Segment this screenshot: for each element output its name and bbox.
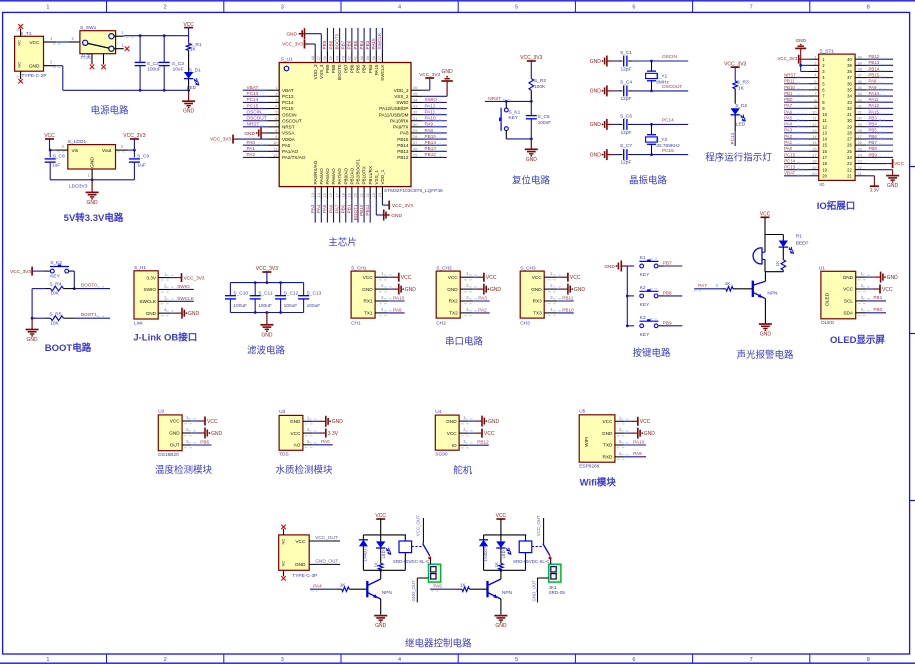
svg-text:GND: GND (405, 287, 417, 293)
svg-text:24: 24 (377, 192, 382, 197)
svg-text:S_H1: S_H1 (134, 265, 146, 271)
svg-text:VCC: VCC (170, 419, 181, 424)
svg-text:GND: GND (531, 287, 542, 292)
svg-text:VCC: VCC (532, 275, 543, 280)
svg-text:SRD-05VDC-SL-C: SRD-05VDC-SL-C (393, 559, 429, 564)
ground GND of filter circuit (260, 313, 273, 339)
svg-text:16: 16 (328, 192, 333, 197)
title 滤波电路 (247, 345, 286, 357)
svg-text:RX2: RX2 (449, 299, 459, 304)
net label PB8 wire (650, 289, 682, 296)
svg-text:PA2: PA2 (247, 152, 256, 157)
svg-text:100uF: 100uF (233, 303, 247, 309)
svg-text:40: 40 (847, 57, 852, 62)
chip top pins with names and numbers (310, 52, 385, 81)
svg-text:27: 27 (858, 134, 862, 139)
svg-text:PB15: PB15 (397, 137, 409, 142)
svg-text:PB3: PB3 (365, 40, 370, 49)
svg-text:11: 11 (822, 118, 827, 123)
connector S_CH2 body (436, 265, 477, 326)
svg-text:Vout: Vout (102, 148, 112, 154)
svg-text:VCC_3V3: VCC_3V3 (210, 137, 231, 142)
svg-text:VCC_3V3: VCC_3V3 (123, 133, 145, 139)
svg-text:PB1: PB1 (784, 91, 793, 96)
svg-text:18: 18 (822, 161, 827, 166)
svg-text:IO: IO (819, 182, 824, 188)
svg-text:PA9: PA9 (633, 451, 642, 456)
svg-text:0: 0 (17, 75, 19, 79)
crystal S_Y1 8MHz with capacitors S_C1 S_C4 (OSCIN/OSCOUT) (590, 50, 688, 102)
svg-text:GND: GND (590, 152, 602, 158)
svg-text:NPN: NPN (382, 590, 393, 596)
svg-text:35: 35 (847, 87, 852, 92)
svg-text:CH3: CH3 (520, 321, 530, 327)
screw terminal connector (green) (429, 559, 441, 583)
svg-text:R1: R1 (796, 234, 802, 240)
svg-text:29: 29 (413, 128, 418, 133)
svg-text:VCC: VCC (448, 275, 459, 280)
svg-text:SWCLK: SWCLK (177, 296, 195, 301)
svg-text:7: 7 (750, 5, 753, 11)
power VCC_3V3 of BOOT circuit (10, 267, 43, 276)
svg-text:1K: 1K (460, 582, 467, 587)
svg-text:2: 2 (164, 5, 167, 11)
power VCC_3V3 of reset circuit (520, 55, 542, 78)
title Wifi模块 (580, 476, 617, 488)
svg-text:RX1: RX1 (363, 299, 373, 304)
power VCC at U4 pin 2 (468, 429, 495, 438)
svg-text:声光报警电路: 声光报警电路 (736, 349, 794, 361)
svg-text:PB7: PB7 (343, 64, 348, 73)
svg-text:GND: GND (332, 419, 344, 425)
connector S_CH1 body (351, 265, 392, 326)
svg-text:47: 47 (316, 55, 321, 60)
svg-text:PA5: PA5 (322, 204, 327, 213)
svg-text:21: 21 (858, 171, 862, 176)
net label PA9 at U5 pin 4 (624, 451, 646, 457)
svg-text:S_C12: S_C12 (284, 291, 299, 297)
svg-text:GND: GND (887, 275, 899, 281)
IO header right pins (855, 54, 866, 176)
chip left net label wires (243, 85, 267, 157)
connector S_T1 (TYPE-C-2P) (15, 29, 47, 80)
svg-text:VCC: VCC (401, 275, 412, 281)
svg-text:KEY: KEY (640, 332, 650, 338)
IO header left net labels (784, 73, 808, 176)
chip bottom rotated net labels (310, 200, 370, 223)
svg-text:PB2/BOOT1: PB2/BOOT1 (356, 159, 361, 185)
svg-text:22: 22 (858, 165, 862, 170)
svg-text:S_C1: S_C1 (620, 50, 632, 56)
svg-text:1K: 1K (374, 562, 379, 567)
svg-text:10K: 10K (50, 320, 59, 326)
svg-text:19: 19 (812, 165, 816, 170)
svg-text:晶振电路: 晶振电路 (629, 175, 668, 187)
svg-text:VSSA: VSSA (282, 131, 295, 136)
net label PB6 at U2 pin 3 (191, 439, 211, 445)
title 主芯片 (328, 237, 357, 249)
svg-text:PB14: PB14 (397, 143, 409, 148)
svg-text:OUT: OUT (170, 443, 180, 448)
power VCC_3V3 of indicator (724, 61, 746, 81)
svg-text:VCC: VCC (496, 513, 507, 519)
svg-text:PA6: PA6 (328, 204, 333, 213)
svg-text:VCC: VCC (29, 40, 40, 46)
svg-text:35: 35 (413, 91, 418, 96)
svg-text:32: 32 (413, 110, 418, 115)
ground GND of BOOT circuit (26, 318, 39, 343)
net label NRST wire (485, 96, 533, 103)
svg-text:GND: GND (362, 287, 373, 292)
svg-text:21: 21 (359, 192, 364, 197)
title IO拓展口 (817, 200, 856, 212)
ground GND at chip VSS_2 pin 35 (423, 69, 453, 96)
svg-text:1K: 1K (725, 281, 732, 286)
power 3.3V at U3 pin 2 (312, 429, 339, 438)
svg-text:30: 30 (413, 122, 418, 127)
svg-text:39: 39 (847, 63, 852, 68)
svg-text:22: 22 (847, 167, 852, 172)
svg-text:SWIO: SWIO (396, 100, 409, 105)
svg-text:OLED显示屏: OLED显示屏 (830, 335, 885, 346)
chip right pins with names and numbers (379, 85, 423, 160)
svg-text:VBAT: VBAT (784, 171, 795, 176)
svg-text:PB9: PB9 (663, 320, 672, 325)
svg-text:NC: NC (16, 40, 21, 46)
svg-text:VCC_OUT: VCC_OUT (416, 515, 421, 536)
svg-text:12pF: 12pF (621, 67, 632, 73)
svg-text:3: 3 (281, 5, 284, 11)
svg-text:VSS_3: VSS_3 (319, 64, 324, 79)
title OLED显示屏 (830, 335, 885, 346)
svg-text:PB7: PB7 (869, 140, 878, 145)
svg-text:U3: U3 (279, 409, 285, 415)
svg-text:KEY: KEY (640, 272, 650, 278)
power VCC at S_CH3 pin 1 (557, 273, 581, 282)
svg-text:31: 31 (858, 110, 862, 115)
svg-text:20: 20 (822, 173, 827, 178)
svg-text:16: 16 (822, 149, 827, 154)
svg-text:PB3: PB3 (869, 115, 878, 120)
power VCC of relay driver (375, 513, 386, 535)
svg-text:VDD_3: VDD_3 (313, 64, 318, 79)
svg-text:PA1: PA1 (247, 146, 256, 151)
svg-text:1K: 1K (738, 85, 745, 91)
chip top rotated net labels (322, 28, 382, 52)
alarm bottom rail wire (765, 271, 783, 273)
wire button to BOOT0 junction (73, 271, 76, 290)
filter top rail wire (230, 281, 303, 284)
svg-text:41: 41 (353, 55, 358, 60)
svg-text:S_K1: S_K1 (509, 109, 521, 115)
ground GND at U5 pin 2 (624, 428, 655, 439)
svg-text:15: 15 (322, 192, 327, 197)
svg-text:PA10: PA10 (393, 296, 405, 301)
svg-text:PA7: PA7 (784, 103, 793, 108)
net label PA10 at S_CH1 RX (388, 296, 405, 302)
title BOOT电路 (45, 342, 92, 354)
svg-text:PB6: PB6 (200, 439, 209, 444)
svg-text:S_C13: S_C13 (307, 291, 322, 297)
svg-text:J-Link OB接口: J-Link OB接口 (133, 332, 197, 344)
svg-text:PC15: PC15 (784, 152, 796, 157)
svg-text:PB10/TX: PB10/TX (362, 166, 367, 184)
svg-text:Wifi模块: Wifi模块 (580, 476, 617, 488)
transistor NPN of relay driver (367, 570, 392, 614)
svg-text:45: 45 (328, 55, 333, 60)
svg-text:100uF: 100uF (307, 303, 321, 309)
resistor S_R3 1K (733, 80, 749, 104)
net label PA10 at U5 pin 3 (624, 439, 646, 445)
svg-text:PB10: PB10 (359, 204, 364, 216)
svg-text:NRST: NRST (784, 73, 796, 78)
LED D1 of alarm (779, 234, 809, 254)
svg-text:PB1/AO: PB1/AO (349, 167, 354, 184)
svg-text:PA15: PA15 (869, 109, 880, 114)
svg-text:VCC: VCC (363, 275, 374, 280)
svg-text:39: 39 (858, 60, 862, 65)
chip left pins with names and numbers (267, 85, 306, 160)
svg-text:PA3: PA3 (784, 128, 793, 133)
power 3.3V at IO pin 21 (866, 176, 880, 192)
svg-text:OSCOUT: OSCOUT (282, 118, 302, 123)
svg-text:S_CH3: S_CH3 (520, 265, 536, 271)
svg-text:VCC: VCC (882, 287, 893, 293)
svg-text:SRD-05VDC-SL-C: SRD-05VDC-SL-C (513, 559, 549, 564)
svg-text:PA1/AO: PA1/AO (282, 149, 299, 154)
title 复位电路 (512, 175, 551, 187)
svg-text:5: 5 (515, 5, 518, 11)
svg-text:PB0: PB0 (873, 307, 882, 312)
net label PB10 at S_CH3 TX (557, 307, 574, 313)
power VCC at S_CH2 pin 1 (473, 273, 497, 282)
svg-text:VSS_2: VSS_2 (394, 94, 409, 99)
wire reset bottom junction (506, 138, 532, 141)
svg-text:串口电路: 串口电路 (445, 336, 484, 348)
svg-text:BOOT0: BOOT0 (337, 64, 342, 80)
svg-text:AO: AO (294, 443, 301, 448)
svg-text:PA3: PA3 (478, 296, 487, 301)
svg-text:7: 7 (814, 91, 816, 96)
net label PA2 at S_CH2 TX (473, 307, 490, 313)
svg-text:继电器控制电路: 继电器控制电路 (405, 638, 472, 650)
svg-text:VCC: VCC (760, 212, 771, 218)
svg-text:34: 34 (847, 94, 852, 99)
ground GND at chip VSSA pin 8 (244, 127, 267, 138)
svg-text:VCC_3V3: VCC_3V3 (520, 55, 542, 61)
chip right net label wires (423, 97, 447, 157)
svg-text:PC13: PC13 (730, 132, 735, 144)
net label VCC_OUT wire (309, 535, 340, 541)
svg-text:NRST: NRST (282, 125, 295, 130)
svg-text:PB12: PB12 (397, 155, 409, 160)
svg-text:25: 25 (847, 149, 852, 154)
svg-text:PC13: PC13 (784, 165, 796, 170)
svg-text:PB3: PB3 (368, 64, 373, 73)
svg-text:PA9: PA9 (393, 307, 402, 312)
svg-text:S_C10: S_C10 (233, 291, 248, 297)
svg-text:PB6: PB6 (869, 134, 878, 139)
svg-text:PB12: PB12 (477, 440, 489, 445)
svg-text:PA0: PA0 (784, 146, 793, 151)
svg-text:GND: GND (526, 157, 538, 163)
push button S_K1 KEY (499, 100, 520, 139)
svg-text:31: 31 (413, 116, 418, 121)
svg-text:SCL: SCL (844, 299, 854, 304)
svg-text:WIFI: WIFI (584, 437, 590, 447)
svg-text:LED: LED (736, 121, 746, 127)
net label GND_OUT wire of relay output (531, 578, 548, 602)
svg-text:23: 23 (371, 192, 376, 197)
svg-text:OSCIN: OSCIN (247, 109, 262, 114)
module U2 (DS18B20) body (158, 409, 196, 458)
resistor S_R4 10K (32, 282, 74, 297)
svg-text:19: 19 (347, 192, 352, 197)
title J-Link OB接口 (133, 332, 197, 344)
net label PC13 rotated below LED (730, 131, 735, 146)
svg-text:VCC_3V3: VCC_3V3 (282, 42, 303, 47)
svg-text:KEY: KEY (509, 115, 519, 121)
resistor S_R2 100K (529, 78, 546, 101)
svg-text:TXD: TXD (603, 443, 613, 448)
svg-text:LED: LED (381, 550, 386, 558)
svg-text:滤波电路: 滤波电路 (247, 345, 286, 357)
svg-text:PB12: PB12 (869, 54, 880, 59)
transistor NPN of relay driver (488, 570, 513, 614)
svg-text:PA11/USB/DM: PA11/USB/DM (379, 112, 409, 117)
svg-text:VCC: VCC (290, 431, 301, 436)
svg-text:PA6/AO: PA6/AO (331, 168, 336, 185)
svg-text:PA1: PA1 (784, 140, 793, 145)
svg-text:11: 11 (812, 116, 816, 121)
svg-text:1uF: 1uF (138, 162, 146, 168)
power VCC_3V3 at chip VDD_3 top pin 48 (282, 40, 315, 52)
svg-text:S_R4: S_R4 (49, 282, 61, 288)
svg-text:19: 19 (822, 167, 827, 172)
svg-text:VCC: VCC (602, 419, 613, 424)
capacitor S_C3 10uF (159, 34, 185, 91)
svg-text:PA5: PA5 (433, 584, 442, 589)
svg-text:K1: K1 (640, 255, 646, 261)
IO header left pins (808, 54, 818, 176)
svg-text:GND: GND (760, 332, 772, 338)
svg-text:RX3: RX3 (533, 299, 543, 304)
svg-text:GND: GND (590, 89, 602, 95)
no-connect X on S_SW1 pin 1 right (114, 43, 129, 52)
svg-text:27: 27 (413, 140, 418, 145)
svg-text:复位电路: 复位电路 (512, 175, 551, 187)
svg-text:PB9: PB9 (325, 64, 330, 73)
svg-text:GND: GND (795, 38, 806, 43)
svg-text:18: 18 (812, 159, 816, 164)
svg-text:1K: 1K (494, 562, 499, 567)
svg-text:46: 46 (322, 55, 327, 60)
svg-text:GND: GND (590, 122, 602, 128)
svg-text:1N4007: 1N4007 (483, 546, 488, 561)
power VCC at U2 pin 1 (191, 417, 218, 426)
svg-text:GND: GND (29, 64, 40, 70)
ground GND at S_CH2 pin 2 (473, 284, 501, 295)
svg-text:温度检测模块: 温度检测模块 (155, 464, 213, 476)
svg-text:100K: 100K (534, 84, 546, 90)
svg-text:VSS_1: VSS_1 (374, 170, 379, 185)
relay indicator LED (376, 535, 391, 559)
svg-text:GND: GND (590, 59, 602, 65)
svg-text:37: 37 (858, 73, 862, 78)
svg-text:GND: GND (604, 264, 615, 269)
svg-text:S_CH1: S_CH1 (351, 265, 367, 271)
relay driver bottom rail wire (363, 569, 405, 572)
svg-text:PB5: PB5 (353, 40, 358, 49)
svg-text:1: 1 (46, 657, 49, 663)
svg-text:100uF: 100uF (147, 67, 161, 73)
svg-text:GND: GND (87, 200, 99, 206)
svg-text:VBAT: VBAT (247, 85, 259, 90)
svg-text:PA8: PA8 (869, 79, 878, 84)
svg-text:GND: GND (887, 183, 899, 189)
power VCC top of power circuit (183, 22, 194, 36)
relay driver top rail wire (363, 534, 406, 536)
ground GND at IO pin 22 (866, 170, 899, 189)
LED S_D1 (184, 68, 201, 92)
no-connect X on S_T1 top pin (18, 24, 23, 29)
ground GND at S_CH1 pin 2 (388, 284, 416, 295)
svg-text:PB15: PB15 (869, 73, 880, 78)
svg-text:GND: GND (211, 431, 223, 437)
svg-text:VCC: VCC (183, 22, 194, 28)
resistor 1K below relay LED (374, 548, 383, 570)
filter bottom rail wire (230, 311, 303, 314)
svg-text:36: 36 (847, 81, 852, 86)
svg-text:PC15: PC15 (282, 106, 294, 111)
svg-text:PB8: PB8 (328, 40, 333, 49)
svg-text:OSCIN: OSCIN (662, 54, 677, 59)
IC S_U1 STM32F103C8T6_LQFP48 body (279, 57, 443, 194)
net label PB11 at S_CH3 RX (557, 296, 574, 302)
svg-text:PB10: PB10 (562, 307, 574, 312)
net label GND_OUT wire (309, 559, 340, 565)
svg-text:KEY: KEY (50, 274, 60, 280)
ground GND at U3 pin 1 (312, 416, 343, 427)
regulator S_LDO1 LDO3V3 (56, 139, 128, 189)
svg-text:TYPE-C-3P: TYPE-C-3P (292, 573, 317, 579)
resistor S_R5 10K (32, 311, 74, 326)
svg-text:PB4: PB4 (362, 64, 367, 73)
power VCC_3V3 at chip VDD_1 bottom pin 24 (382, 200, 413, 210)
svg-text:VCC_3V3: VCC_3V3 (419, 72, 440, 77)
svg-text:25: 25 (413, 152, 418, 157)
svg-text:GND: GND (183, 109, 195, 115)
svg-text:OLED: OLED (824, 292, 830, 306)
svg-text:PB0: PB0 (784, 97, 793, 102)
svg-text:OSCIN: OSCIN (282, 112, 297, 117)
svg-text:PB0: PB0 (341, 204, 346, 213)
capacitor S_C12 100nF (275, 283, 298, 313)
IO header right net labels (866, 54, 893, 157)
power VCC at OLED pin 2 (867, 285, 893, 294)
svg-text:PB5: PB5 (356, 64, 361, 73)
svg-text:Link: Link (134, 320, 143, 326)
title 按键电路 (632, 347, 671, 359)
net label PA7 at alarm input (694, 283, 719, 290)
svg-text:TYPE-C-2P: TYPE-C-2P (22, 73, 47, 79)
svg-text:GND: GND (391, 213, 402, 219)
svg-text:VCC_3V3: VCC_3V3 (392, 203, 413, 208)
wire GND return rail of power circuit (44, 60, 189, 91)
net label PB0 at OLED SDA (867, 307, 886, 313)
svg-text:S_R5: S_R5 (49, 311, 61, 317)
svg-text:S_CH2: S_CH2 (436, 265, 452, 271)
